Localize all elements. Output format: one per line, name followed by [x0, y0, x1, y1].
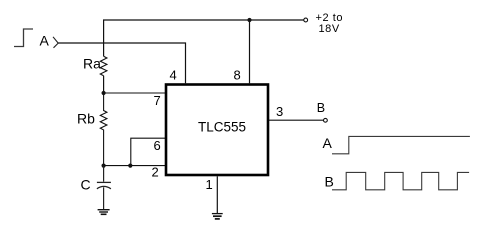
svg-text:TLC555: TLC555 — [198, 120, 246, 135]
resistor Rb — [100, 93, 107, 167]
svg-text:6: 6 — [154, 138, 161, 153]
input step symbol — [14, 29, 33, 47]
wire A to pin4 — [58, 43, 185, 83]
wire pin1 drop — [216, 176, 218, 213]
wire pin8 drop — [249, 20, 251, 83]
wire pin6 loop — [131, 138, 166, 165]
svg-text:18V: 18V — [319, 23, 340, 35]
svg-text:B: B — [317, 101, 325, 115]
svg-text:1: 1 — [206, 177, 213, 192]
svg-text:C: C — [81, 177, 91, 193]
waveform B trace — [332, 172, 469, 189]
svg-text:7: 7 — [154, 93, 161, 108]
svg-text:B: B — [325, 173, 334, 189]
ground pin1 — [212, 214, 223, 219]
svg-text:Ra: Ra — [83, 55, 101, 71]
supply terminal circle — [304, 18, 308, 22]
svg-text:A: A — [323, 135, 333, 151]
wire pin3 output — [269, 119, 324, 121]
svg-text:8: 8 — [234, 67, 241, 82]
node junction top rail — [247, 18, 251, 22]
input arrow chevron — [53, 37, 58, 48]
wire top rail — [104, 20, 304, 56]
op chip TLC555 U1 — [166, 85, 268, 176]
ground below C — [98, 210, 110, 215]
svg-text:4: 4 — [170, 68, 177, 83]
svg-text:3: 3 — [276, 104, 283, 119]
svg-text:Rb: Rb — [77, 110, 95, 126]
node junction pin6/pin2 — [128, 164, 132, 168]
node junction Ra/Rb/pin7 — [102, 91, 106, 95]
capacitor C — [97, 166, 111, 210]
node junction Rb/C/pin2 — [102, 164, 106, 168]
output terminal circle — [324, 118, 328, 122]
wire pin2 — [104, 165, 166, 167]
resistor Ra — [100, 56, 107, 75]
waveform A trace — [332, 136, 470, 153]
wire pin7 — [104, 92, 166, 94]
svg-text:A: A — [40, 33, 50, 49]
svg-text:2: 2 — [152, 165, 159, 180]
wire Ra to junction — [103, 76, 105, 93]
